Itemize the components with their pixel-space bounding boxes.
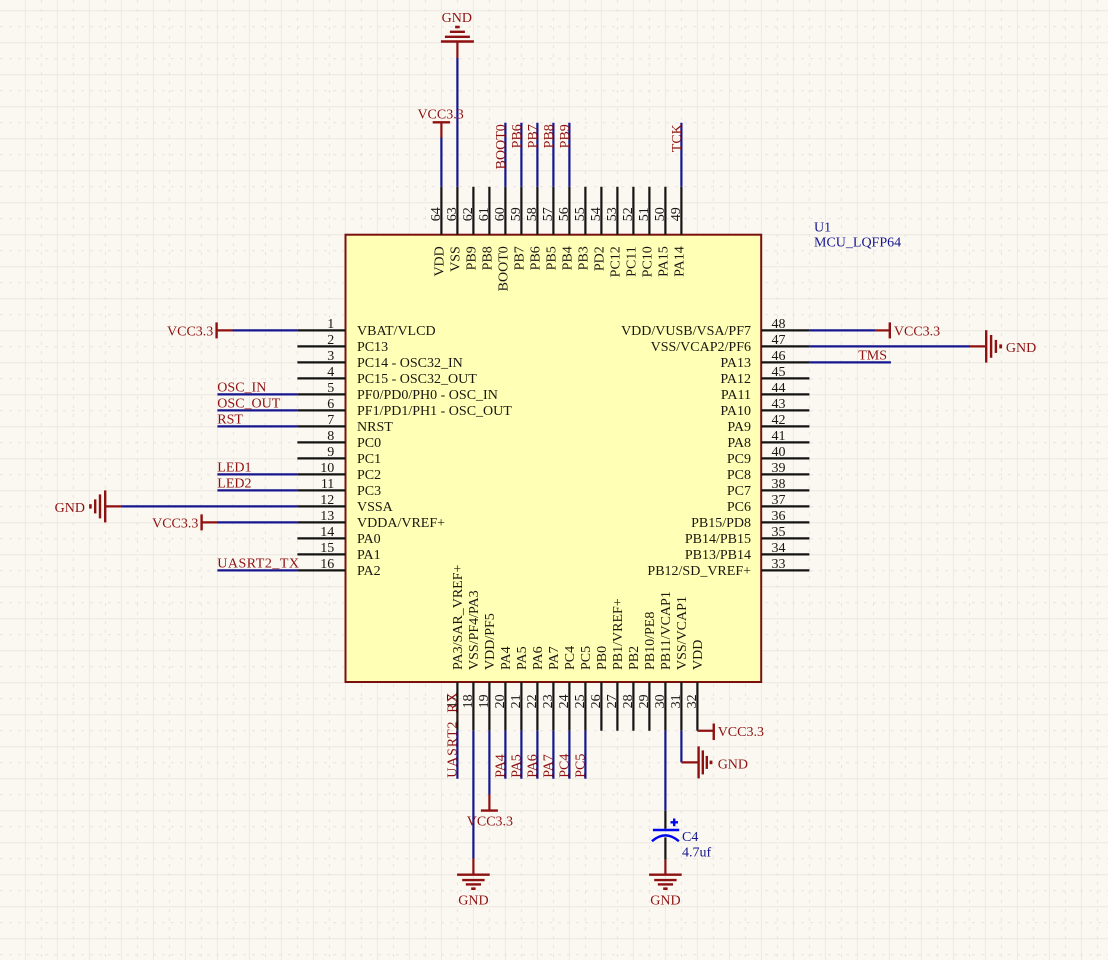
svg-text:46: 46 <box>772 349 786 364</box>
svg-text:18: 18 <box>461 694 476 708</box>
svg-text:PA1: PA1 <box>357 548 381 563</box>
svg-text:30: 30 <box>653 694 668 708</box>
svg-text:7: 7 <box>327 413 334 428</box>
svg-text:PB8: PB8 <box>542 124 557 148</box>
svg-text:VDD/PF5: VDD/PF5 <box>483 613 498 670</box>
pin 28 (PB2) bottom <box>621 646 642 731</box>
pin 17 (PA3/SAR_VREF+) bottom <box>445 564 466 730</box>
svg-text:PA2: PA2 <box>357 564 381 579</box>
svg-text:32: 32 <box>685 694 700 708</box>
svg-text:PC2: PC2 <box>357 468 381 483</box>
svg-text:PB1/VREF+: PB1/VREF+ <box>611 598 626 670</box>
pin 52 (PC11) top <box>621 187 640 277</box>
pin 54 (PD2) top <box>589 187 608 271</box>
svg-text:28: 28 <box>621 694 636 708</box>
pin 7 (NRST) left <box>297 413 393 435</box>
power ground GND (pin 18) <box>457 858 490 908</box>
svg-text:TCK: TCK <box>670 124 685 152</box>
svg-text:PB9: PB9 <box>465 246 480 270</box>
svg-text:27: 27 <box>605 694 620 708</box>
svg-text:8: 8 <box>327 429 334 444</box>
svg-text:PA7: PA7 <box>542 754 557 778</box>
power ground GND (pin 12) <box>55 490 122 522</box>
svg-text:PB7: PB7 <box>513 246 528 270</box>
wire VCC3.3 to pin 64 <box>440 137 442 187</box>
power ground GND (pin 47) <box>970 330 1036 362</box>
pin 49 (PA14) top <box>669 187 688 277</box>
svg-text:15: 15 <box>320 541 334 556</box>
pin 8 (PC0) left <box>297 429 381 451</box>
power port VCC3.3 (pin 1) <box>167 322 233 339</box>
svg-text:PC10: PC10 <box>641 246 656 277</box>
svg-text:PB13/PB14: PB13/PB14 <box>685 548 751 563</box>
pin 45 (PA12) right <box>720 365 809 387</box>
power port VCC3.3 (pin 32) <box>697 724 764 741</box>
wire net PA5 pin 21 <box>520 731 522 779</box>
svg-text:35: 35 <box>772 525 786 540</box>
svg-text:44: 44 <box>772 381 786 396</box>
svg-text:PC5: PC5 <box>574 754 589 778</box>
svg-text:UASRT2_TX: UASRT2_TX <box>217 556 299 571</box>
svg-text:PB12/SD_VREF+: PB12/SD_VREF+ <box>647 564 751 579</box>
svg-text:PA5: PA5 <box>515 646 530 670</box>
svg-text:50: 50 <box>653 207 668 221</box>
svg-text:OSC_IN: OSC_IN <box>217 380 266 395</box>
pin 60 (BOOT0) top <box>493 187 512 292</box>
svg-text:PA4: PA4 <box>499 646 514 670</box>
svg-text:NRST: NRST <box>357 420 393 435</box>
svg-text:11: 11 <box>321 477 334 492</box>
svg-text:MCU_LQFP64: MCU_LQFP64 <box>814 236 901 251</box>
svg-text:PA4: PA4 <box>494 754 509 778</box>
wire net UASRT2_TX pin 16 <box>217 569 297 571</box>
svg-text:5: 5 <box>327 381 334 396</box>
svg-text:33: 33 <box>772 557 786 572</box>
svg-text:PC9: PC9 <box>727 452 751 467</box>
svg-text:40: 40 <box>772 445 786 460</box>
svg-text:59: 59 <box>509 207 524 221</box>
pin 10 (PC2) left <box>297 461 381 483</box>
svg-text:20: 20 <box>493 694 508 708</box>
svg-text:PB6: PB6 <box>529 246 544 270</box>
svg-text:49: 49 <box>669 207 684 221</box>
svg-text:37: 37 <box>772 493 786 508</box>
svg-text:9: 9 <box>327 445 334 460</box>
svg-text:VCC3.3: VCC3.3 <box>718 725 764 740</box>
pin 34 (PB13/PB14) right <box>685 541 810 563</box>
svg-text:VBAT/VLCD: VBAT/VLCD <box>357 324 436 339</box>
svg-text:PB3: PB3 <box>577 246 592 270</box>
pin 39 (PC8) right <box>727 461 810 483</box>
pin 62 (PB9) top <box>461 187 480 271</box>
svg-text:PC3: PC3 <box>357 484 381 499</box>
svg-text:PA8: PA8 <box>727 436 751 451</box>
svg-text:PA13: PA13 <box>720 356 751 371</box>
pin 9 (PC1) left <box>297 445 381 467</box>
svg-text:PF0/PD0/PH0 - OSC_IN: PF0/PD0/PH0 - OSC_IN <box>357 388 498 403</box>
svg-text:PC15 - OSC32_OUT: PC15 - OSC32_OUT <box>357 372 477 387</box>
pin 15 (PA1) left <box>297 541 380 563</box>
svg-text:PA5: PA5 <box>510 754 525 778</box>
svg-text:PB15/PD8: PB15/PD8 <box>691 516 751 531</box>
svg-text:PC4: PC4 <box>563 646 578 670</box>
svg-text:UASRT2_RX: UASRT2_RX <box>446 692 461 778</box>
svg-text:PC5: PC5 <box>579 646 594 670</box>
svg-text:22: 22 <box>525 694 540 708</box>
svg-text:PC1: PC1 <box>357 452 381 467</box>
wire net PB6 pin 59 <box>520 123 522 187</box>
svg-text:VCC3.3: VCC3.3 <box>467 814 513 829</box>
pin 57 (PB5) top <box>541 187 560 271</box>
pin 47 (VSS/VCAP2/PF6) right <box>651 333 810 355</box>
svg-text:GND: GND <box>650 893 680 908</box>
pin 14 (PA0) left <box>297 525 380 547</box>
pin 40 (PC9) right <box>727 445 810 467</box>
wire net LED2 pin 11 <box>217 489 297 491</box>
pin 23 (PA7) bottom <box>541 646 562 730</box>
svg-text:PA12: PA12 <box>720 372 751 387</box>
svg-text:GND: GND <box>442 11 472 26</box>
pin 61 (PB8) top <box>477 187 496 271</box>
power port VCC3.3 (pin 19) <box>467 795 513 830</box>
pin 18 (VSS/PF4/PA3) bottom <box>461 590 482 730</box>
svg-text:29: 29 <box>637 694 652 708</box>
svg-text:26: 26 <box>589 694 604 708</box>
pin 16 (PA2) left <box>297 557 380 579</box>
svg-text:PB4: PB4 <box>561 246 576 270</box>
pin 48 (VDD/VUSB/VSA/PF7) right <box>621 317 809 339</box>
svg-text:PB2: PB2 <box>627 646 642 670</box>
svg-text:21: 21 <box>509 694 524 708</box>
power port VCC3.3 (pin 48) <box>876 322 941 339</box>
wire net TCK pin 49 <box>680 123 682 187</box>
svg-text:58: 58 <box>525 207 540 221</box>
svg-text:PB0: PB0 <box>595 646 610 670</box>
svg-text:36: 36 <box>772 509 786 524</box>
svg-text:24: 24 <box>557 694 572 708</box>
svg-text:2: 2 <box>327 333 334 348</box>
pin 1 (VBAT/VLCD) left <box>297 317 435 339</box>
svg-text:10: 10 <box>320 461 334 476</box>
svg-text:4: 4 <box>327 365 334 380</box>
wire GND to pin 12 <box>121 505 297 507</box>
pin 22 (PA6) bottom <box>525 646 546 730</box>
svg-text:VSS/VCAP2/PF6: VSS/VCAP2/PF6 <box>651 340 751 355</box>
svg-text:4.7uf: 4.7uf <box>682 845 712 860</box>
svg-text:PA15: PA15 <box>657 246 672 277</box>
svg-text:PC8: PC8 <box>727 468 751 483</box>
pin 46 (PA13) right <box>720 349 809 371</box>
svg-text:53: 53 <box>605 207 620 221</box>
svg-text:PC0: PC0 <box>357 436 381 451</box>
pin 44 (PA11) right <box>721 381 809 403</box>
svg-text:VSS/VCAP1: VSS/VCAP1 <box>675 596 690 670</box>
pin 55 (PB3) top <box>573 187 592 271</box>
svg-text:VDD: VDD <box>691 640 706 670</box>
wire net BOOT0 pin 60 <box>504 123 506 187</box>
svg-text:61: 61 <box>477 207 492 221</box>
svg-text:25: 25 <box>573 694 588 708</box>
svg-text:41: 41 <box>772 429 786 444</box>
pin 21 (PA5) bottom <box>509 646 530 730</box>
wire net PB9 pin 56 <box>568 123 570 187</box>
pin 6 (PF1/PD1/PH1 - OSC_OUT) left <box>297 397 512 419</box>
wire net OSC_OUT pin 6 <box>217 409 297 411</box>
pin 38 (PC7) right <box>727 477 810 499</box>
pin 3 (PC14 - OSC32_IN) left <box>297 349 462 371</box>
svg-text:U1: U1 <box>814 221 831 236</box>
pin 13 (VDDA/VREF+) left <box>297 509 445 531</box>
svg-text:C4: C4 <box>682 830 698 845</box>
svg-text:PB8: PB8 <box>481 246 496 270</box>
pin 27 (PB1/VREF+) bottom <box>605 598 626 731</box>
wire net TMS pin 46 <box>809 361 891 363</box>
svg-text:42: 42 <box>772 413 786 428</box>
svg-text:52: 52 <box>621 207 636 221</box>
wire net PC4 pin 24 <box>568 731 570 779</box>
svg-text:GND: GND <box>55 501 85 516</box>
svg-text:LED1: LED1 <box>217 460 251 475</box>
pin 56 (PB4) top <box>557 187 576 271</box>
pin 53 (PC12) top <box>605 187 624 278</box>
svg-text:BOOT0: BOOT0 <box>494 124 509 169</box>
svg-text:47: 47 <box>772 333 786 348</box>
wire net PA4 pin 20 <box>504 731 506 779</box>
wire GND to pin 63 <box>456 58 458 187</box>
svg-text:PC4: PC4 <box>558 754 573 778</box>
svg-text:PB14/PB15: PB14/PB15 <box>685 532 751 547</box>
wire GND to pin 18 <box>472 731 474 859</box>
svg-text:VDD/VUSB/VSA/PF7: VDD/VUSB/VSA/PF7 <box>621 324 751 339</box>
svg-text:VSS/PF4/PA3: VSS/PF4/PA3 <box>467 590 482 670</box>
pin 19 (VDD/PF5) bottom <box>477 613 498 731</box>
svg-text:PA6: PA6 <box>526 754 541 778</box>
pin 2 (PC13) left <box>297 333 388 355</box>
svg-text:34: 34 <box>772 541 786 556</box>
svg-text:13: 13 <box>320 509 334 524</box>
wire GND to pin 31 <box>680 731 682 763</box>
wire pin 30 to C4 <box>664 731 666 811</box>
pin 42 (PA9) right <box>727 413 809 435</box>
pin 12 (VSSA) left <box>297 493 393 515</box>
svg-text:PB5: PB5 <box>545 246 560 270</box>
wire net PA6 pin 22 <box>536 731 538 779</box>
pin 11 (PC3) left <box>297 477 381 499</box>
svg-text:PA10: PA10 <box>720 404 751 419</box>
svg-text:BOOT0: BOOT0 <box>497 246 512 291</box>
wire net PB7 pin 58 <box>536 123 538 187</box>
svg-text:PD2: PD2 <box>593 246 608 271</box>
power port VCC3.3 (pin 64) <box>417 108 463 138</box>
wire net LED1 pin 10 <box>217 473 297 475</box>
svg-text:VDDA/VREF+: VDDA/VREF+ <box>357 516 445 531</box>
pin 32 (VDD) bottom <box>685 640 706 731</box>
pin 59 (PB7) top <box>509 187 528 271</box>
svg-text:VCC3.3: VCC3.3 <box>894 325 940 340</box>
svg-text:43: 43 <box>772 397 786 412</box>
svg-text:57: 57 <box>541 207 556 221</box>
svg-text:VSS: VSS <box>449 246 464 272</box>
svg-text:TMS: TMS <box>858 348 887 363</box>
svg-text:60: 60 <box>493 207 508 221</box>
wire net PA7 pin 23 <box>552 731 554 779</box>
pin 51 (PC10) top <box>637 187 656 278</box>
svg-text:PB10/PE8: PB10/PE8 <box>643 612 658 670</box>
svg-text:51: 51 <box>637 207 652 221</box>
wire VCC3.3 to pin 48 <box>809 329 875 331</box>
pin 63 (VSS) top <box>445 187 464 272</box>
pin 4 (PC15 - OSC32_OUT) left <box>297 365 477 387</box>
power port VCC3.3 (pin 13) <box>152 514 217 531</box>
svg-text:16: 16 <box>320 557 334 572</box>
svg-text:PC11: PC11 <box>625 246 640 277</box>
wire net UASRT2_RX pin 17 <box>456 731 458 779</box>
pin 50 (PA15) top <box>653 187 672 277</box>
svg-text:PA3/SAR_VREF+: PA3/SAR_VREF+ <box>451 564 466 670</box>
svg-text:39: 39 <box>772 461 786 476</box>
svg-text:GND: GND <box>718 757 748 772</box>
svg-text:PA14: PA14 <box>673 246 688 277</box>
pin 30 (PB11/VCAP1) bottom <box>653 591 674 731</box>
svg-text:VCC3.3: VCC3.3 <box>152 517 198 532</box>
svg-text:54: 54 <box>589 207 604 221</box>
pin 29 (PB10/PE8) bottom <box>637 612 658 731</box>
svg-text:38: 38 <box>772 477 786 492</box>
wire net PC5 pin 25 <box>584 731 586 779</box>
pin 64 (VDD) top <box>429 187 448 277</box>
svg-text:PB9: PB9 <box>558 124 573 148</box>
svg-text:LED2: LED2 <box>217 476 251 491</box>
pin 43 (PA10) right <box>720 397 809 419</box>
pin 24 (PC4) bottom <box>557 646 578 731</box>
svg-text:VCC3.3: VCC3.3 <box>167 325 213 340</box>
svg-text:3: 3 <box>327 349 334 364</box>
svg-text:31: 31 <box>669 694 684 708</box>
svg-text:VCC3.3: VCC3.3 <box>417 108 463 123</box>
wire VCC3.3 to pin 19 <box>488 731 490 795</box>
svg-text:19: 19 <box>477 694 492 708</box>
pin 5 (PF0/PD0/PH0 - OSC_IN) left <box>297 381 497 403</box>
power ground GND (pin 31) <box>681 746 748 778</box>
svg-text:VSSA: VSSA <box>357 500 394 515</box>
wire net RST pin 7 <box>217 425 297 427</box>
svg-text:56: 56 <box>557 207 572 221</box>
svg-text:12: 12 <box>320 493 334 508</box>
pin 37 (PC6) right <box>727 493 810 515</box>
power ground GND (pin 63) <box>441 11 474 58</box>
svg-text:GND: GND <box>1006 341 1036 356</box>
svg-text:23: 23 <box>541 694 556 708</box>
pin 36 (PB15/PD8) right <box>691 509 809 531</box>
wire GND to pin 47 <box>809 345 970 347</box>
pin 33 (PB12/SD_VREF+) right <box>647 557 809 579</box>
svg-text:PF1/PD1/PH1 - OSC_OUT: PF1/PD1/PH1 - OSC_OUT <box>357 404 512 419</box>
wire net PB8 pin 57 <box>552 123 554 187</box>
svg-text:PB7: PB7 <box>526 124 541 148</box>
svg-text:PA6: PA6 <box>531 646 546 670</box>
pin 35 (PB14/PB15) right <box>685 525 810 547</box>
svg-text:PA7: PA7 <box>547 646 562 670</box>
svg-text:VDD: VDD <box>433 246 448 276</box>
wire VCC3.3 to pin 1 <box>232 329 297 331</box>
svg-text:RST: RST <box>217 412 243 427</box>
svg-text:62: 62 <box>461 207 476 221</box>
pin 31 (VSS/VCAP1) bottom <box>669 596 690 731</box>
svg-text:45: 45 <box>772 365 786 380</box>
svg-text:63: 63 <box>445 207 460 221</box>
svg-text:PC7: PC7 <box>727 484 751 499</box>
wire net OSC_IN pin 5 <box>217 393 297 395</box>
pin 26 (PB0) bottom <box>589 646 610 731</box>
svg-text:PB6: PB6 <box>510 124 525 148</box>
svg-text:64: 64 <box>429 207 444 221</box>
pin 20 (PA4) bottom <box>493 646 514 730</box>
power ground GND (C4) <box>649 860 682 909</box>
svg-text:OSC_OUT: OSC_OUT <box>217 396 280 411</box>
svg-text:PC6: PC6 <box>727 500 751 515</box>
svg-text:PC14 - OSC32_IN: PC14 - OSC32_IN <box>357 356 463 371</box>
svg-text:55: 55 <box>573 207 588 221</box>
svg-text:PC12: PC12 <box>609 246 624 277</box>
svg-text:14: 14 <box>320 525 334 540</box>
MCU U1 body <box>346 235 762 682</box>
svg-text:PA11: PA11 <box>721 388 751 403</box>
svg-text:1: 1 <box>327 317 334 332</box>
svg-text:PB11/VCAP1: PB11/VCAP1 <box>659 591 674 670</box>
pin 58 (PB6) top <box>525 187 544 271</box>
svg-text:PA0: PA0 <box>357 532 381 547</box>
capacitor C4 4.7uf <box>652 811 712 861</box>
svg-text:48: 48 <box>772 317 786 332</box>
pin 41 (PA8) right <box>727 429 809 451</box>
svg-text:PC13: PC13 <box>357 340 388 355</box>
svg-text:PA9: PA9 <box>727 420 751 435</box>
svg-text:6: 6 <box>327 397 334 412</box>
wire VCC3.3 to pin 13 <box>218 521 298 523</box>
svg-text:GND: GND <box>458 893 488 908</box>
pin 25 (PC5) bottom <box>573 646 594 731</box>
